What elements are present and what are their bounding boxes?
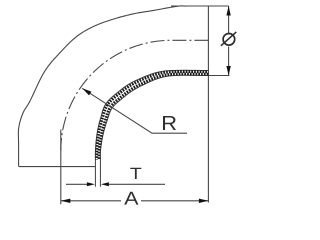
label A — [124, 192, 138, 205]
leader line R — [82, 88, 187, 133]
wire top outline + extension line — [171, 5, 229, 7]
arrowhead R leader — [82, 88, 91, 95]
arrowhead diameter up — [226, 6, 230, 16]
arrowhead A right — [199, 199, 209, 203]
arrowhead T left — [87, 182, 95, 186]
arrowhead A left — [61, 199, 71, 203]
dimension line diameter — [228, 6, 230, 33]
dimension line A right segment — [141, 200, 208, 202]
wall hatch checker row outer — [99, 74, 208, 159]
inner bore edge line — [95, 70, 208, 186]
arrowhead T right — [101, 182, 109, 186]
dimension line A left segment — [61, 200, 121, 202]
label T — [130, 168, 141, 179]
wall outer edge line — [100, 75, 208, 186]
label R — [163, 116, 176, 130]
outer arc elbow outside surface — [18, 6, 186, 167]
wire bottom end face line — [19, 166, 95, 168]
diameter symbol — [221, 32, 236, 46]
centerline dash-dot arc — [61, 40, 209, 150]
wall hatch checker row inner — [97, 72, 209, 160]
wire centerline vertical extension — [60, 130, 62, 205]
dimension line T left tail — [66, 183, 87, 185]
arrowhead diameter down — [226, 66, 230, 76]
wire bottom extension line of diameter — [208, 75, 229, 77]
wire right end face line — [207, 6, 209, 203]
dimension line T right tail — [109, 183, 165, 185]
